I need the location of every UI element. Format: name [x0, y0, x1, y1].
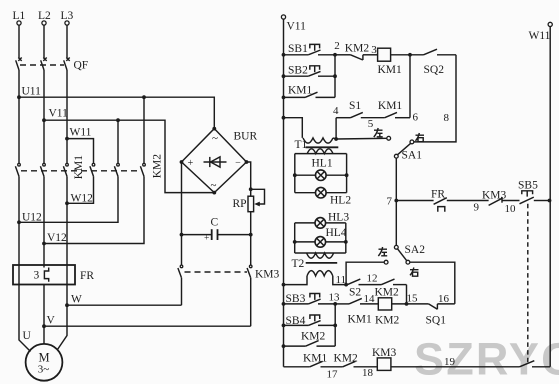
node W11 [65, 127, 92, 141]
contact KM1 aux row13 [335, 293, 378, 326]
wire U lead to motor [19, 285, 31, 352]
node W motor [65, 294, 82, 308]
wire W12 cross link [67, 176, 94, 203]
svg-text:HL1: HL1 [312, 158, 333, 170]
transformer T2 core [306, 262, 338, 264]
breaker QF [16, 58, 89, 72]
svg-text:SB2: SB2 [288, 65, 308, 77]
node RP top [249, 187, 253, 191]
contact KM2 NC row1 [335, 43, 378, 61]
svg-text:11: 11 [336, 274, 347, 286]
svg-text:KM3: KM3 [372, 347, 397, 359]
node HL4 left [293, 240, 297, 244]
wire phase V upper [43, 70, 45, 163]
rectifier bridge BUR [182, 129, 258, 193]
pushbutton SB5 NC [518, 180, 550, 204]
svg-text:KM1: KM1 [73, 155, 85, 180]
coil KM3 [372, 347, 397, 370]
node rail T2 [282, 283, 286, 287]
node BUR left plus [180, 160, 184, 164]
wire W rail to KM3 [67, 304, 182, 306]
contact KM1 NC bottom [303, 353, 343, 381]
wire SA1 common drop [395, 158, 397, 245]
capacitor C [182, 217, 251, 244]
terminal L2 [38, 10, 51, 25]
svg-text:SQ1: SQ1 [426, 315, 447, 327]
node T1 primary right [334, 137, 338, 141]
svg-text:U11: U11 [22, 86, 42, 98]
lamp HL2 [316, 187, 352, 206]
wire row7 start [396, 200, 433, 202]
wire SA2 right to node16 riser [410, 262, 455, 304]
svg-text:L3: L3 [61, 10, 74, 22]
lamp box 2 right rail [345, 223, 347, 253]
node 15 [405, 293, 418, 306]
switch S2 [348, 273, 382, 299]
motor M 3~ [26, 344, 63, 381]
node 11 [336, 274, 349, 287]
svg-text:SQ2: SQ2 [424, 64, 445, 76]
svg-text:19: 19 [444, 356, 456, 368]
svg-text:U: U [23, 330, 32, 342]
lamp HL4 [315, 227, 347, 247]
svg-text:6: 6 [413, 112, 419, 124]
svg-text:KM1: KM1 [288, 85, 313, 97]
node 2 [333, 40, 340, 57]
svg-text:14: 14 [364, 293, 376, 305]
node rail SB3 [282, 302, 286, 306]
wire U11 bus [19, 97, 214, 128]
contact KM1 row4 [378, 100, 419, 124]
svg-text:KM2: KM2 [301, 331, 326, 343]
node U12 [17, 212, 42, 225]
svg-text:−: − [235, 158, 241, 169]
node rail SB2 [282, 74, 286, 78]
node HL4 right [344, 240, 348, 244]
node C left [180, 233, 184, 237]
svg-text:C: C [211, 217, 219, 229]
lamp box 1 left rail [294, 154, 296, 193]
svg-text:W: W [71, 294, 82, 306]
svg-text:KM2: KM2 [375, 287, 400, 299]
transformer T1 secondary [307, 149, 333, 154]
wire U11 drop to KM2 pole3 [143, 97, 145, 163]
wire L1 drop [18, 25, 20, 58]
contact KM2 aux row11 [375, 279, 407, 298]
lamp box 2 bottom rail [295, 252, 346, 254]
svg-text:BUR: BUR [234, 131, 258, 143]
svg-text:L1: L1 [13, 10, 26, 22]
label you SA1 [416, 133, 425, 142]
switch SA1 [394, 140, 422, 162]
junction V11 to KM2 pole2 [116, 118, 120, 122]
contact KM3 NC row7 [482, 190, 520, 216]
wire HL4 row [295, 241, 346, 243]
svg-text:5: 5 [368, 118, 374, 130]
svg-text:SB1: SB1 [288, 43, 308, 55]
svg-text:T1: T1 [295, 139, 308, 151]
svg-text:V11: V11 [287, 21, 307, 33]
wire V12 cross link [44, 176, 144, 243]
wire V lead to motor [43, 285, 45, 344]
svg-text:4: 4 [333, 105, 339, 117]
wire phase W upper [66, 70, 68, 163]
svg-text:S2: S2 [349, 287, 361, 299]
mechanical link KM1 KM2 [21, 170, 141, 172]
wire rail to T1 primary [284, 118, 303, 138]
svg-text:V11: V11 [49, 108, 69, 120]
mechanical link KM3 [185, 271, 248, 273]
svg-text:18: 18 [362, 367, 374, 379]
pushbutton SB1 [284, 43, 336, 55]
svg-text:12: 12 [367, 273, 378, 285]
wire V11 bus to rectifier [44, 120, 213, 192]
svg-text:V12: V12 [47, 232, 67, 244]
svg-text:+: + [188, 158, 194, 169]
wire node6 riser [409, 55, 411, 118]
wire bottom row left [284, 366, 310, 368]
wire RP down to C row [250, 212, 252, 265]
wire L2 drop [43, 25, 45, 58]
wire phase W to FR [66, 176, 68, 265]
node BUR top [212, 127, 216, 131]
svg-text:KM1: KM1 [378, 64, 403, 76]
node C right [249, 233, 253, 237]
svg-text:KM1: KM1 [348, 314, 373, 326]
terminal W11 [529, 22, 553, 42]
svg-text:~: ~ [211, 180, 217, 192]
label zuo SA2 [378, 247, 387, 256]
svg-text:SA2: SA2 [405, 244, 426, 256]
node SB2 right [333, 74, 337, 78]
coil KM1 [378, 48, 403, 76]
lamp box 2 top rail [295, 222, 346, 224]
svg-text:KM2: KM2 [375, 315, 400, 327]
lamp HL3 [315, 212, 349, 229]
svg-text:V: V [47, 315, 56, 327]
wire control left rail [283, 19, 285, 367]
wire HL2 row [295, 192, 347, 194]
node HL1 left [293, 173, 297, 177]
svg-text:KM2: KM2 [345, 43, 370, 55]
wire SQ2 down to SA1 right [414, 55, 456, 142]
switch SA2 [384, 244, 425, 264]
mechanical link SB5 [527, 204, 529, 363]
svg-text:QF: QF [74, 60, 89, 72]
wire W lead to motor [58, 285, 68, 350]
svg-text:KM1: KM1 [303, 353, 328, 365]
terminal L1 [13, 10, 26, 25]
transformer T2 secondary [307, 253, 334, 258]
wire riser 13 to KM2 aux [334, 304, 336, 346]
wire V11 drop to KM2 pole2 [117, 120, 119, 163]
contact KM1 aux self hold [284, 85, 336, 98]
contactor KM1 main contacts [15, 155, 85, 180]
lamp box 2 left rail [294, 223, 296, 253]
svg-text:16: 16 [438, 293, 450, 305]
diode inside BUR [204, 157, 227, 167]
svg-text:7: 7 [387, 196, 393, 208]
svg-text:SB5: SB5 [518, 180, 538, 192]
svg-text:10: 10 [505, 203, 517, 215]
node rail SB1 [282, 53, 286, 57]
contactor KM3 power contact right [247, 265, 279, 326]
limit switch SQ2 [424, 49, 457, 76]
wire phase U to FR [18, 176, 20, 265]
svg-text:W11: W11 [70, 127, 92, 139]
junction U11 to KM2 pole3 [142, 95, 146, 99]
lamp box 1 top rail [295, 153, 347, 155]
terminal SA1 left [387, 136, 391, 140]
svg-text:+: + [204, 234, 209, 244]
node HL1 right [345, 173, 349, 177]
node row7 W11 rail [548, 199, 552, 203]
svg-text:W11: W11 [529, 30, 551, 42]
label zuo SA1 [374, 128, 383, 137]
svg-text:S1: S1 [349, 100, 361, 112]
svg-text:17: 17 [327, 369, 339, 381]
svg-text:L2: L2 [38, 10, 51, 22]
wire plus down to C row [181, 162, 183, 265]
wire row4 start [336, 117, 350, 119]
svg-text:KM1: KM1 [378, 100, 403, 112]
wire coil KM1 to node [391, 54, 424, 56]
svg-text:3~: 3~ [38, 364, 50, 376]
lamp HL1 [312, 158, 333, 181]
wire node12 drop to node15 [406, 285, 408, 304]
node BUR right minus [245, 160, 249, 164]
contact KM2 aux self hold [284, 331, 336, 347]
svg-text:3: 3 [34, 270, 40, 282]
svg-text:HL2: HL2 [330, 195, 351, 207]
thermal relay FR heater box [13, 265, 94, 285]
switch S1 [349, 100, 385, 130]
svg-text:KM2: KM2 [334, 353, 359, 365]
transformer T2 primary [307, 271, 333, 276]
svg-text:FR: FR [80, 270, 94, 282]
svg-text:KM3: KM3 [482, 190, 507, 202]
svg-text:~: ~ [212, 133, 218, 145]
svg-text:KM2: KM2 [152, 154, 164, 179]
limit switch SQ1 NC [426, 293, 455, 327]
wire W11 rail [549, 27, 551, 367]
wire SA2 left to node11 [346, 262, 384, 284]
transformer T1 core [306, 146, 339, 148]
svg-text:SA1: SA1 [402, 150, 423, 162]
svg-text:KM3: KM3 [255, 269, 280, 281]
svg-text:2: 2 [334, 40, 340, 52]
label you SA2 [410, 268, 419, 277]
node KM1 coil right [408, 53, 412, 57]
node rail KM1 aux [282, 96, 286, 100]
contact FR NC [431, 189, 489, 214]
node W12 [65, 193, 93, 206]
pushbutton SB4 [284, 315, 336, 327]
svg-text:8: 8 [444, 112, 450, 124]
node SB4 right [333, 324, 337, 328]
node rail KM2 aux [282, 344, 286, 348]
wire T2 primary left lead [284, 276, 308, 285]
svg-text:M: M [38, 351, 49, 365]
node 7 [387, 196, 399, 208]
svg-text:13: 13 [329, 292, 341, 304]
contact SB5 NO bottom [520, 361, 551, 367]
wire HL1 row [295, 174, 347, 176]
node 13 [329, 292, 341, 306]
svg-text:RP: RP [233, 198, 247, 210]
wire aux riser [334, 55, 336, 98]
wire T2 primary right lead [333, 276, 346, 285]
node BUR bottom [212, 191, 216, 195]
transformer T1 primary [303, 138, 333, 143]
svg-text:HL4: HL4 [326, 227, 347, 239]
pushbutton SB2 [284, 65, 336, 77]
contactor KM3 power contact left [178, 265, 183, 305]
svg-text:T2: T2 [292, 258, 305, 270]
wire V rail to KM3 [44, 325, 251, 327]
wire T1 right short [333, 138, 336, 139]
node V motor [42, 315, 55, 329]
node V12 [42, 232, 67, 245]
terminal V11 control [281, 15, 306, 33]
node U11 [17, 86, 41, 100]
svg-text:3: 3 [371, 44, 377, 56]
wire bottom row right [391, 366, 520, 368]
pushbutton SB3 [284, 293, 336, 305]
wire L3 drop [66, 25, 68, 58]
svg-text:SZRYC: SZRYC [414, 334, 559, 384]
contactor KM2 main contacts [90, 154, 164, 179]
lamp box 1 right rail [346, 154, 348, 193]
node V11 [42, 108, 68, 123]
svg-text:HL3: HL3 [328, 212, 349, 224]
wire coil KM2 to node15 [392, 303, 429, 305]
wire T1 node riser to row4 [335, 118, 337, 139]
terminal L3 [61, 10, 74, 25]
node rail T1 [282, 116, 286, 120]
wire minus to RP [247, 162, 251, 196]
wire phase U upper [18, 70, 20, 163]
wire phase V to FR [43, 176, 45, 267]
coil KM2 [375, 298, 400, 327]
svg-text:15: 15 [407, 293, 419, 305]
node rail SB4 [282, 324, 286, 328]
wire U12 cross link [19, 176, 118, 222]
svg-text:9: 9 [474, 202, 480, 214]
potentiometer RP [233, 189, 265, 211]
wire W11 to KM2 pole1 [67, 139, 94, 164]
wire T1 node to SA1 left [336, 137, 387, 140]
contact KM2 NC bottom [334, 353, 378, 380]
